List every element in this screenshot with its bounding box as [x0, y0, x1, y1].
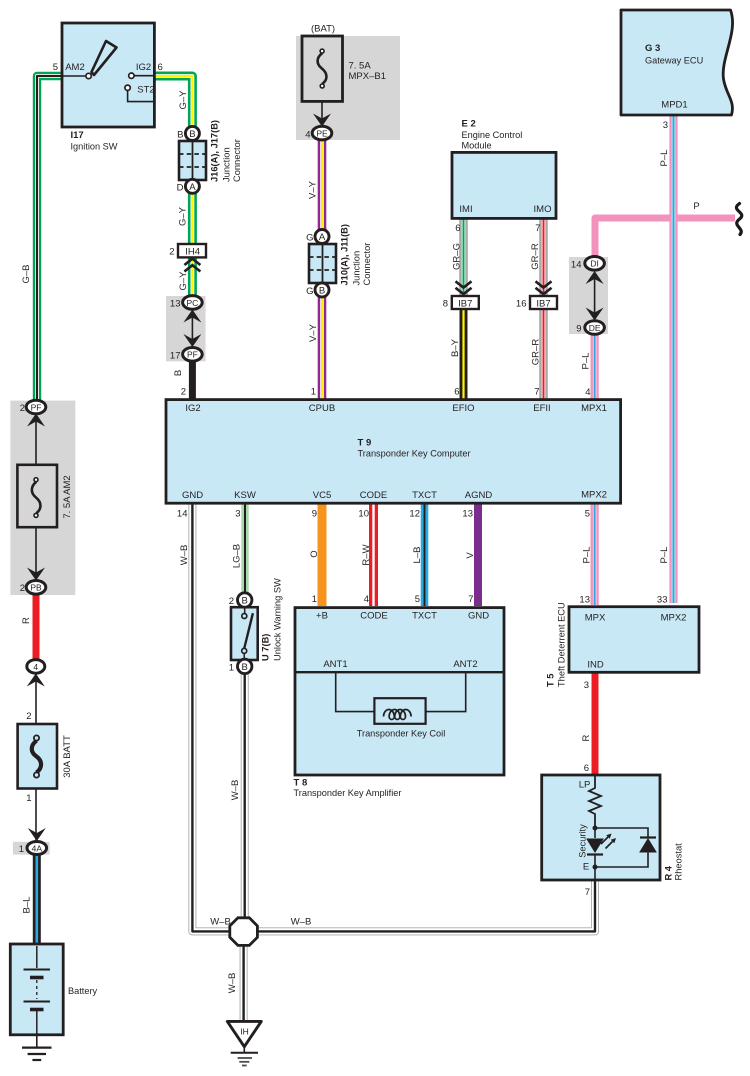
- connector oval PF left column: [26, 400, 46, 414]
- thin lead PF to fuse AM2: [35, 412, 37, 466]
- wire G-Y from I17 IG2 pin 6 to junction connector J16: [154, 76, 192, 130]
- svg-text:IG2: IG2: [185, 403, 200, 414]
- chevron arrows above connector IH4 wire: [184, 259, 200, 272]
- transponder key amplifier T8: [295, 608, 504, 775]
- svg-text:4: 4: [305, 130, 310, 141]
- svg-text:7. 5A AM2: 7. 5A AM2: [62, 475, 73, 518]
- connector PC text and pin: [170, 298, 198, 310]
- wire LG-B from T9 KSW pin 3 to U7: [241, 503, 248, 597]
- wire P thick pink from break to connector DI: [595, 218, 735, 260]
- connector circle B top of J16: [185, 126, 199, 140]
- fuse 7.5A AM2: [17, 465, 57, 527]
- svg-text:TXCT: TXCT: [412, 490, 437, 501]
- svg-text:IH4: IH4: [185, 247, 200, 258]
- connector IH4 text and pin: [169, 247, 200, 258]
- svg-text:G–Y: G–Y: [178, 206, 189, 226]
- T8 top pin names: [316, 611, 489, 622]
- engine control module E2: [452, 152, 556, 218]
- svg-text:Theft Deterrent ECU: Theft Deterrent ECU: [557, 602, 567, 687]
- connector box IB7 pin 8: [452, 296, 479, 309]
- arrow down into connector 4A: [28, 828, 46, 841]
- rheostat R4: [542, 775, 660, 880]
- svg-text:G: G: [306, 233, 313, 244]
- svg-text:1: 1: [312, 594, 317, 605]
- W-B labels near junction: [210, 917, 311, 928]
- arrow up into PF left: [27, 414, 45, 427]
- svg-text:CODE: CODE: [360, 611, 387, 622]
- wire W-B from junction to ground IH: [240, 944, 248, 1020]
- svg-text:P–L: P–L: [581, 353, 592, 370]
- svg-text:ST2: ST2: [137, 85, 154, 96]
- svg-text:IB7: IB7: [458, 299, 472, 310]
- transponder key computer T9: [166, 400, 621, 504]
- wire GR-R from E2 IMO pin 7 to IB7: [539, 218, 548, 299]
- R4 labels: [664, 843, 684, 881]
- svg-text:7: 7: [534, 387, 539, 398]
- theft deterrent ECU T5: [569, 607, 699, 673]
- svg-text:6: 6: [454, 387, 459, 398]
- svg-text:2: 2: [20, 403, 25, 414]
- wire G-Y from IH4 to connector PC: [188, 256, 197, 300]
- svg-text:CODE: CODE: [360, 490, 387, 501]
- connector box IH4: [178, 244, 206, 257]
- svg-text:Junction: Junction: [352, 251, 362, 286]
- arrow down into DE: [586, 308, 604, 321]
- label 7.5A MPX-B1: [349, 61, 387, 83]
- svg-text:1: 1: [26, 793, 31, 804]
- svg-text:Transponder Key Computer: Transponder Key Computer: [358, 449, 471, 459]
- thin lead fuse MPX-B1 to PE: [321, 100, 323, 122]
- svg-text:9: 9: [576, 324, 581, 335]
- letters in J16 circles: [189, 129, 196, 193]
- arrow down into PF: [183, 334, 201, 347]
- arrow down into PB: [27, 568, 45, 581]
- svg-text:G: G: [306, 286, 313, 297]
- svg-text:IB7: IB7: [536, 299, 550, 310]
- svg-text:W–B: W–B: [179, 545, 190, 566]
- wire W-B from R4 pin 7 to junction: [256, 879, 595, 931]
- svg-text:Transponder Key Amplifier: Transponder Key Amplifier: [294, 788, 402, 798]
- pins IMI IMO of E2: [455, 204, 551, 234]
- wire W-B from T9 GND pin 14 to junction: [192, 503, 231, 931]
- svg-text:W–B: W–B: [227, 973, 238, 994]
- R4 pins: [579, 763, 591, 898]
- wire B-Y from IB7 to T9 EFIO pin 6: [460, 308, 468, 400]
- svg-text:5: 5: [53, 62, 58, 73]
- wire O from T9 VC5 pin 9 to T8 +B pin 1: [318, 503, 327, 606]
- svg-text:3: 3: [584, 680, 589, 691]
- svg-text:1: 1: [229, 663, 234, 674]
- svg-text:D: D: [177, 183, 184, 194]
- svg-text:Gateway ECU: Gateway ECU: [645, 56, 703, 66]
- svg-text:2: 2: [229, 596, 234, 607]
- link line DI to DE: [594, 273, 596, 318]
- svg-text:A: A: [319, 232, 326, 243]
- svg-text:J16(A), J17(B): J16(A), J17(B): [210, 120, 220, 182]
- left column labels: 7.5A AM2 fuse: [20, 403, 73, 594]
- connector box IB7 pin 16: [530, 296, 557, 309]
- svg-text:B: B: [242, 596, 248, 607]
- wire R-W from T9 CODE pin 10 to T8 CODE pin 4: [369, 503, 378, 606]
- ground triangle IH: [227, 1021, 261, 1065]
- T9 top pin numbers: [181, 387, 591, 399]
- svg-text:6: 6: [584, 763, 589, 774]
- T5 pin names: [585, 613, 687, 671]
- svg-text:PF: PF: [187, 350, 198, 360]
- svg-text:J10(A), J11(B): J10(A), J11(B): [340, 224, 350, 286]
- pins of I17: [53, 62, 163, 96]
- svg-text:G–Y: G–Y: [178, 90, 189, 110]
- connector oval DI: [585, 257, 605, 271]
- svg-text:CPUB: CPUB: [309, 403, 335, 414]
- U7 labels: [261, 578, 283, 661]
- svg-text:Battery: Battery: [68, 986, 98, 996]
- label E2 Engine Control Module: [462, 119, 523, 151]
- gateway ECU G3: [621, 10, 733, 115]
- junction connector J10(A),J11(B): [309, 244, 336, 283]
- T8 ANT pins: [323, 659, 477, 670]
- T5 pin numbers: [579, 595, 667, 692]
- svg-text:MPX: MPX: [585, 613, 606, 624]
- connector oval PC: [183, 296, 203, 310]
- svg-text:V–Y: V–Y: [308, 180, 319, 199]
- svg-text:IG2: IG2: [136, 62, 151, 73]
- svg-text:30A BATT: 30A BATT: [62, 735, 73, 778]
- svg-text:GR–R: GR–R: [530, 243, 541, 270]
- svg-text:T 5: T 5: [546, 674, 556, 687]
- wire L-B from T9 TXCT pin 12 to T8 TXCT pin 5: [421, 503, 429, 606]
- T9 top pin names: [185, 403, 607, 414]
- svg-text:Junction: Junction: [222, 147, 232, 182]
- wire P-L from DE to T9 MPX1 pin 4: [590, 331, 598, 400]
- svg-text:6: 6: [158, 62, 163, 73]
- wire B-L from 4A to battery: [33, 851, 41, 947]
- svg-text:3: 3: [663, 120, 668, 131]
- wire GR-R from IB7 to T9 EFII pin 7: [539, 308, 548, 400]
- svg-text:GND: GND: [182, 490, 203, 501]
- labels of junction connector J16: [177, 120, 242, 194]
- svg-text:TXCT: TXCT: [412, 611, 437, 622]
- junction connector J16(A),J17(B): [179, 141, 206, 180]
- connector oval 4: [27, 660, 45, 674]
- connector oval PE: [312, 126, 332, 140]
- wire P-L from T9 MPX2 pin 5 to T5 MPX pin 13: [590, 503, 598, 605]
- svg-text:5: 5: [415, 594, 420, 605]
- shaded area around connectors PC/PF: [166, 296, 206, 361]
- connector circle B top of U7: [238, 593, 252, 607]
- svg-text:O: O: [309, 550, 320, 557]
- chevron arrows above IB7 pin 16: [536, 281, 552, 294]
- wire V-Y from J10 pin B to T9 CPUB pin 1: [318, 293, 327, 400]
- svg-text:B: B: [177, 130, 183, 141]
- svg-text:P–L: P–L: [659, 547, 670, 564]
- svg-text:AM2: AM2: [65, 62, 85, 73]
- svg-text:GND: GND: [468, 611, 489, 622]
- svg-text:R 4: R 4: [664, 865, 674, 880]
- svg-text:13: 13: [170, 299, 181, 310]
- shaded area around connectors DI/DE: [569, 257, 608, 334]
- label I17 Ignition SW: [71, 130, 118, 152]
- svg-text:33: 33: [657, 595, 668, 606]
- 30A BATT fuse labels: [26, 711, 73, 804]
- connector oval PB: [26, 581, 46, 595]
- svg-text:14: 14: [177, 509, 188, 520]
- svg-text:10: 10: [358, 509, 369, 520]
- svg-text:EFIO: EFIO: [452, 403, 474, 414]
- svg-text:16: 16: [516, 299, 527, 310]
- svg-text:B: B: [319, 286, 325, 297]
- connector circle A bottom of J16: [185, 179, 199, 193]
- svg-text:17: 17: [170, 351, 181, 362]
- svg-text:DI: DI: [590, 259, 599, 269]
- svg-text:7: 7: [585, 887, 590, 898]
- svg-text:Connector: Connector: [232, 139, 242, 182]
- thin lead fuse AM2 to PB: [35, 526, 37, 575]
- connector IB7 pin 8 text: [443, 299, 473, 310]
- svg-text:VC5: VC5: [313, 490, 331, 501]
- svg-text:B–Y: B–Y: [450, 338, 461, 357]
- connector DI text and pin: [571, 259, 599, 271]
- svg-text:PE: PE: [316, 129, 328, 139]
- svg-text:(BAT): (BAT): [311, 24, 335, 35]
- connector oval PF: [183, 348, 203, 362]
- svg-text:B–L: B–L: [22, 897, 33, 914]
- svg-text:Connector: Connector: [362, 243, 372, 286]
- svg-text:W–B: W–B: [291, 917, 312, 928]
- arrow up into connector 4: [27, 674, 45, 687]
- svg-text:T 8: T 8: [294, 778, 308, 789]
- svg-text:A: A: [189, 182, 196, 193]
- svg-text:Rheostat: Rheostat: [674, 843, 684, 881]
- connector 4A text and pin: [19, 843, 43, 855]
- svg-text:E: E: [583, 862, 589, 873]
- T8 labels: [294, 778, 402, 799]
- svg-text:GR–G: GR–G: [452, 243, 463, 270]
- svg-text:AGND: AGND: [465, 490, 493, 501]
- svg-text:12: 12: [409, 509, 420, 520]
- connector oval DE: [585, 321, 605, 335]
- svg-text:PB: PB: [30, 583, 42, 593]
- wire break squiggle on P: [736, 204, 741, 235]
- wire G-Y from J16 pin A to IH4: [188, 190, 197, 245]
- thin lead fuse 30A BATT to 4A: [35, 787, 37, 843]
- svg-text:V: V: [465, 552, 476, 559]
- shaded area around fuse 7.5A AM2: [10, 401, 75, 595]
- svg-text:R: R: [581, 734, 592, 741]
- svg-text:6: 6: [455, 223, 460, 234]
- wire R from PB to connector 4: [33, 590, 40, 664]
- wire V from T9 AGND pin 13 to T8 GND pin 7: [474, 503, 482, 606]
- svg-text:U 7(B): U 7(B): [261, 634, 271, 661]
- link line PC to PF: [191, 312, 193, 344]
- svg-text:MPX2: MPX2: [661, 613, 687, 624]
- svg-text:T 9: T 9: [358, 438, 372, 449]
- svg-text:Transponder Key Coil: Transponder Key Coil: [357, 729, 446, 739]
- arrow up into DI: [586, 271, 604, 284]
- svg-text:14: 14: [571, 260, 582, 271]
- T9 labels: [358, 438, 471, 459]
- svg-text:ANT2: ANT2: [453, 659, 477, 670]
- svg-text:4: 4: [585, 387, 590, 398]
- svg-text:ANT1: ANT1: [323, 659, 347, 670]
- fusible link 30A BATT: [18, 724, 57, 789]
- svg-text:R–W: R–W: [361, 544, 372, 565]
- svg-text:G 3: G 3: [645, 43, 660, 54]
- svg-text:V–Y: V–Y: [308, 323, 319, 342]
- label G3 Gateway ECU: [645, 43, 703, 66]
- svg-text:2: 2: [26, 711, 31, 722]
- svg-text:+B: +B: [316, 611, 328, 622]
- transponder key coil: [374, 698, 425, 724]
- svg-text:2: 2: [169, 247, 174, 258]
- svg-text:4: 4: [364, 594, 369, 605]
- svg-text:2: 2: [181, 387, 186, 398]
- shaded strip behind connector 4A: [13, 842, 50, 855]
- wire GR-G from E2 IMI pin 6 to IB7: [459, 218, 468, 299]
- svg-text:Unlock Warning SW: Unlock Warning SW: [273, 578, 283, 661]
- unlock warning switch U7(B): [231, 601, 258, 665]
- svg-text:Module: Module: [462, 141, 492, 151]
- svg-text:I17: I17: [71, 130, 84, 141]
- connector circle B bottom of U7: [238, 659, 252, 673]
- svg-text:LP: LP: [579, 780, 591, 791]
- chevron arrows above IB7 pin 8: [456, 281, 472, 294]
- svg-text:1: 1: [311, 387, 316, 398]
- svg-text:P–L: P–L: [582, 547, 593, 564]
- svg-text:13: 13: [579, 595, 590, 606]
- arrow down into PE: [313, 114, 331, 127]
- battery: [10, 944, 63, 1035]
- wire B from PF to T9 IG2 pin 2: [189, 358, 196, 400]
- svg-text:G–B: G–B: [21, 264, 32, 283]
- svg-text:P–L: P–L: [659, 150, 670, 167]
- svg-text:7: 7: [468, 594, 473, 605]
- thin lead connector 4 to fuse 30A BATT: [35, 672, 37, 725]
- svg-text:W–B: W–B: [230, 780, 241, 801]
- wire V-Y from PE to junction connector J10: [318, 136, 327, 233]
- svg-text:5: 5: [585, 509, 590, 520]
- T9 bottom pin numbers: [177, 509, 590, 520]
- svg-text:MPX2: MPX2: [581, 490, 607, 501]
- svg-text:KSW: KSW: [234, 490, 256, 501]
- ignition switch I17: [62, 23, 154, 127]
- svg-text:B: B: [242, 662, 248, 673]
- svg-text:8: 8: [443, 299, 448, 310]
- svg-text:7. 5A: 7. 5A: [349, 61, 372, 72]
- svg-text:E 2: E 2: [462, 119, 476, 130]
- svg-text:MPX1: MPX1: [581, 403, 607, 414]
- svg-text:LG–B: LG–B: [232, 544, 243, 568]
- arrow up into PC: [183, 310, 201, 323]
- svg-text:MPD1: MPD1: [661, 100, 687, 111]
- junction octagon W-B: [230, 918, 258, 946]
- svg-text:DE: DE: [589, 323, 601, 333]
- labels of junction connector J10: [306, 224, 372, 297]
- connector IB7 pin 16 text: [516, 299, 551, 310]
- svg-text:B: B: [189, 129, 195, 140]
- svg-text:PC: PC: [186, 298, 198, 308]
- wire P-L from G3 MPD1 pin 3 to T5 MPX2 pin 33: [669, 114, 677, 603]
- svg-text:7: 7: [535, 223, 540, 234]
- fuse 7.5A MPX-B1: [302, 36, 343, 101]
- svg-text:EFII: EFII: [533, 403, 550, 414]
- svg-text:1: 1: [19, 844, 24, 855]
- svg-text:GR–R: GR–R: [531, 339, 542, 366]
- svg-text:L–B: L–B: [412, 547, 423, 564]
- svg-text:IND: IND: [587, 660, 604, 671]
- svg-text:G–Y: G–Y: [178, 271, 189, 291]
- wire W-B from U7 pin 1 to junction: [241, 670, 249, 920]
- wire G-B from I17 AM2 pin 5 down to PF: [37, 76, 63, 403]
- svg-text:R: R: [21, 617, 32, 624]
- svg-text:13: 13: [462, 509, 473, 520]
- U7 circle letters and pins: [229, 596, 248, 674]
- svg-text:MPX–B1: MPX–B1: [349, 71, 387, 82]
- connector circle B bottom of J10: [315, 283, 329, 297]
- svg-text:IMI: IMI: [459, 204, 472, 215]
- T9 bottom pin names: [182, 490, 607, 502]
- T8 top pin numbers: [312, 594, 474, 605]
- svg-text:IH: IH: [240, 1027, 249, 1037]
- connector PE text and pin: [305, 129, 328, 141]
- svg-text:4A: 4A: [32, 843, 43, 853]
- connector circle A top of J10: [315, 230, 329, 244]
- T5 labels: [546, 602, 567, 687]
- letters in J10 circles: [319, 232, 326, 296]
- svg-text:4: 4: [33, 662, 38, 672]
- svg-text:W–B: W–B: [210, 917, 231, 928]
- svg-text:3: 3: [235, 509, 240, 520]
- svg-text:9: 9: [312, 509, 317, 520]
- connector PF text and pin: [170, 350, 198, 362]
- svg-text:P: P: [693, 201, 699, 212]
- svg-text:2: 2: [20, 583, 25, 594]
- svg-text:Engine Control: Engine Control: [462, 130, 523, 140]
- svg-text:PF: PF: [31, 402, 42, 412]
- ground below battery: [22, 1033, 52, 1060]
- shaded area around fuse 7.5A MPX-B1: [296, 36, 400, 140]
- svg-text:IMO: IMO: [534, 204, 552, 215]
- svg-text:Ignition SW: Ignition SW: [71, 142, 118, 152]
- svg-text:Security: Security: [578, 824, 588, 858]
- connector DE text and pin: [576, 323, 601, 335]
- connector oval 4A: [27, 842, 47, 855]
- svg-text:B: B: [173, 370, 184, 376]
- wire R from T5 IND pin 3 to R4 LP pin 6: [592, 671, 599, 776]
- pin MPD1 of G3: [661, 100, 687, 132]
